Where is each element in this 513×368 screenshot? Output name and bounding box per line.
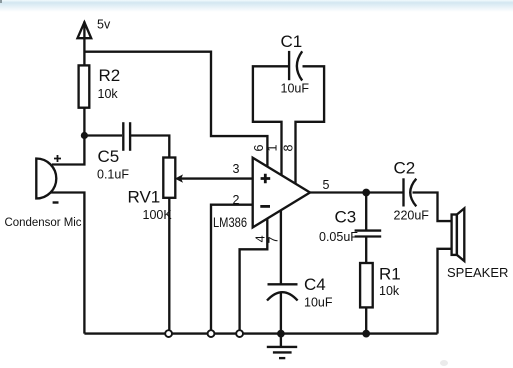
svg-text:C2: C2 <box>394 159 416 178</box>
svg-text:6: 6 <box>252 145 266 152</box>
wire 5v top rail to pin 6 <box>84 52 267 167</box>
svg-text:5v: 5v <box>97 18 111 32</box>
svg-text:3: 3 <box>233 162 240 176</box>
svg-text:0.1uF: 0.1uF <box>97 168 129 182</box>
wire node A to C5 <box>84 134 122 136</box>
junction open circle pin2-rail <box>208 330 215 337</box>
svg-text:7: 7 <box>267 237 281 244</box>
resistor R2 <box>79 65 90 107</box>
svg-text:RV1: RV1 <box>128 188 161 207</box>
potentiometer RV1 <box>163 158 253 198</box>
speaker LS1 <box>452 208 465 261</box>
capacitor C1 loop wires <box>253 66 288 175</box>
svg-text:10uF: 10uF <box>304 296 333 310</box>
svg-text:R1: R1 <box>379 265 401 284</box>
ground rail wire <box>84 332 437 334</box>
capacitor C3 <box>355 231 382 237</box>
svg-text:C1: C1 <box>281 32 303 51</box>
svg-text:2: 2 <box>233 193 240 207</box>
svg-text:C3: C3 <box>335 208 357 227</box>
svg-text:LM386: LM386 <box>213 215 247 230</box>
svg-text:220uF: 220uF <box>394 209 430 223</box>
resistor R1 <box>360 263 373 307</box>
wire C5 to RV1 top <box>131 136 169 158</box>
junction open circle pin4-rail <box>236 330 243 337</box>
svg-text:1: 1 <box>266 145 280 152</box>
ground symbol <box>267 334 297 359</box>
wire R1 to ground rail <box>365 307 367 333</box>
op-amp U1 LM386 <box>253 158 310 228</box>
power 5v supply symbol <box>78 22 92 66</box>
wire C2 to speaker top <box>413 193 452 222</box>
svg-text:C4: C4 <box>304 275 326 294</box>
wire pin 5 output <box>310 191 403 193</box>
wire pin 7 to C4 <box>280 211 282 285</box>
capacitor C2 <box>404 178 417 206</box>
svg-text:Condensor Mic: Condensor Mic <box>5 215 82 229</box>
junction open circle RV1-rail <box>165 330 172 337</box>
wire C3 to R1 <box>365 237 367 264</box>
wire RV1 bottom to ground rail <box>168 198 170 334</box>
wire C4 to ground rail <box>280 293 282 334</box>
svg-text:C5: C5 <box>98 147 120 166</box>
junction dot C4-rail <box>277 330 285 338</box>
svg-text:10k: 10k <box>98 87 119 101</box>
wire node B to C3 <box>365 193 367 231</box>
wire speaker bottom to ground rail <box>438 249 452 334</box>
wire pin 4 to ground rail <box>240 219 268 334</box>
svg-text:4: 4 <box>253 235 267 242</box>
junction dot R1-rail <box>362 330 370 338</box>
capacitor C1 <box>289 51 302 81</box>
wire pin 2 to ground rail <box>211 205 253 334</box>
microphone MIC1 condenser <box>36 155 61 203</box>
svg-text:8: 8 <box>282 145 296 152</box>
svg-text:100K: 100K <box>143 208 173 222</box>
svg-text:SPEAKER: SPEAKER <box>447 265 508 280</box>
svg-text:0.05uF: 0.05uF <box>319 230 358 244</box>
wire R2 to node A <box>83 108 85 136</box>
svg-text:5: 5 <box>323 178 330 192</box>
wire mic plus to node A <box>52 136 84 165</box>
wire mic minus to ground rail <box>51 193 84 334</box>
node B junction dot output <box>362 189 370 197</box>
svg-text:10k: 10k <box>379 284 400 298</box>
svg-text:R2: R2 <box>99 66 121 85</box>
capacitor C5 <box>123 122 130 151</box>
node A junction <box>81 132 88 139</box>
svg-text:10uF: 10uF <box>281 82 310 96</box>
capacitor C4 <box>267 284 298 300</box>
